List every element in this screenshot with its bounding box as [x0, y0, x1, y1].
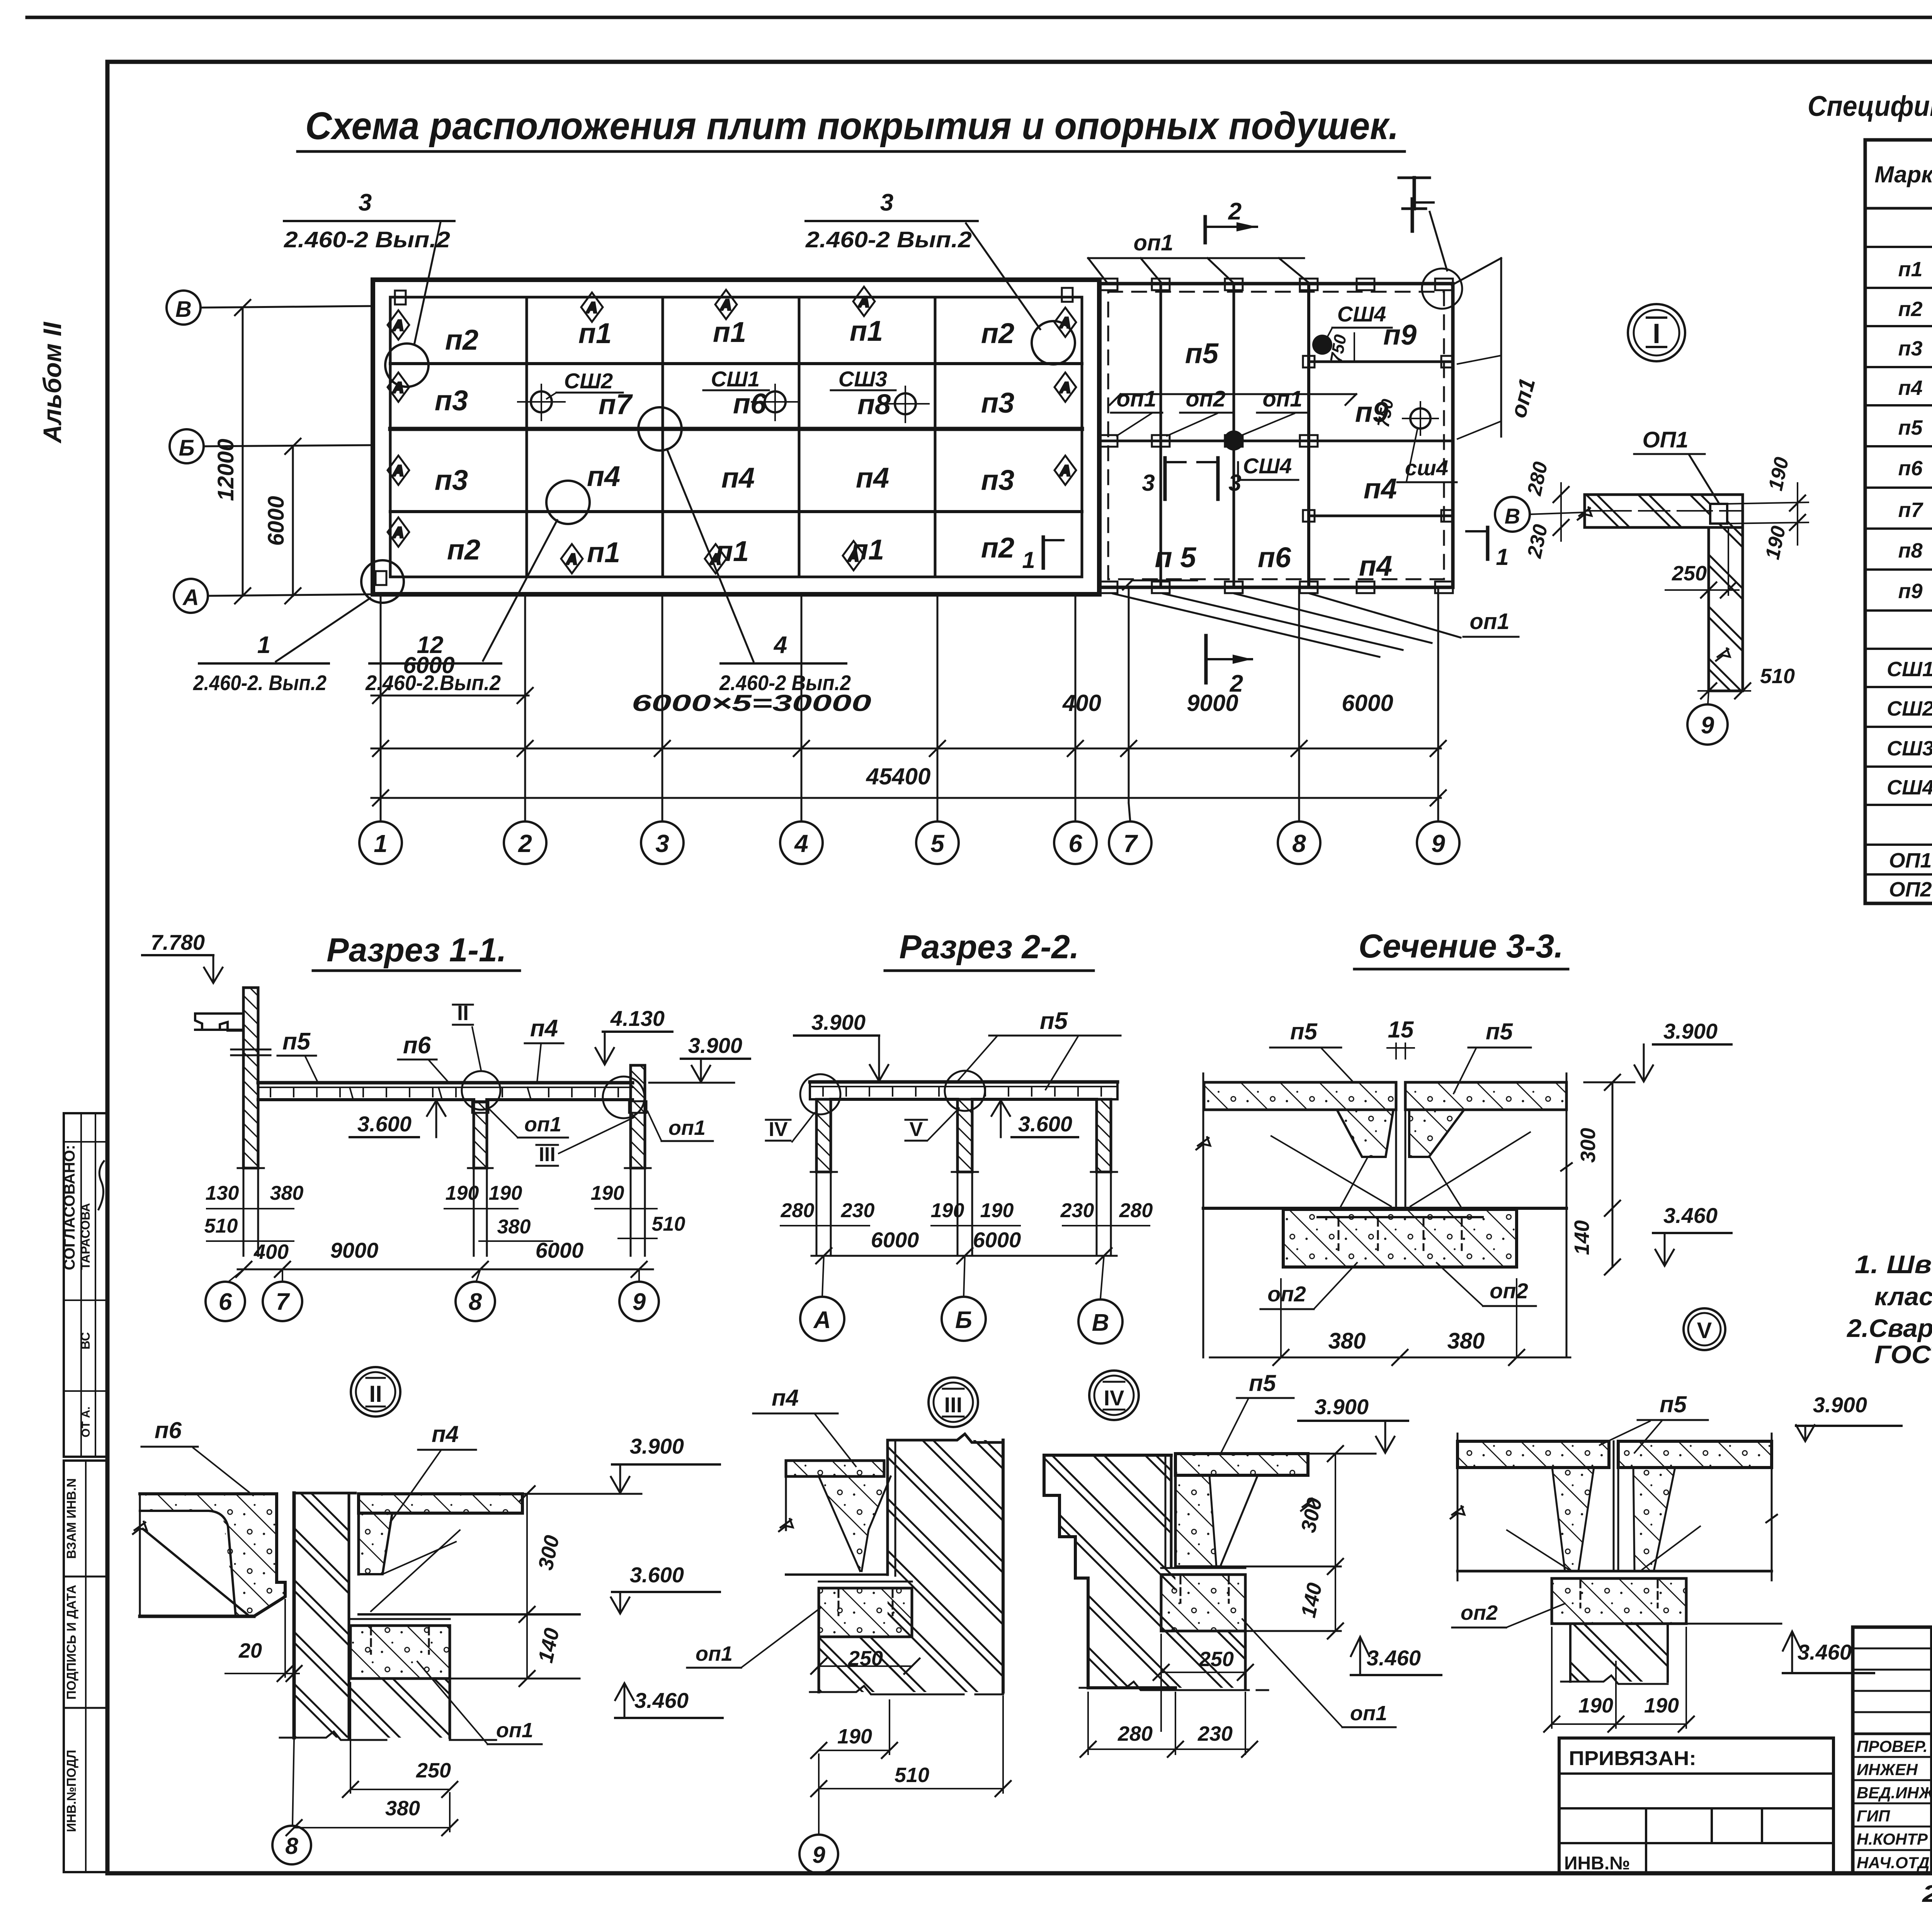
spec row p4 [1898, 376, 1932, 400]
plan: column circles 1-9 [359, 821, 1459, 864]
plan: detail circle C1 [385, 344, 429, 387]
svg-text:п2: п2 [1898, 298, 1922, 321]
title block: signature names [1857, 1737, 1932, 1872]
razrez 1-1 right wall axis 9 [629, 1065, 646, 1168]
plan: node I flag mark [1399, 178, 1447, 270]
svg-text:IV: IV [769, 1118, 787, 1141]
detail III: op1 pad [819, 1582, 912, 1637]
sechenie 3-3 OP2 pad [1283, 1209, 1517, 1267]
svg-text:190: 190 [591, 1182, 624, 1204]
detail II bubble [351, 1367, 400, 1417]
svg-text:п3: п3 [435, 464, 468, 496]
razrez 1-1 detail III label [536, 1117, 634, 1166]
margin text Album II [38, 321, 66, 444]
svg-text:140: 140 [1570, 1220, 1594, 1255]
svg-text:6000×5=30000: 6000×5=30000 [632, 690, 871, 716]
detail II: level 3.460 [615, 1683, 723, 1718]
plan left block: plate row lines [390, 364, 1082, 512]
detail II: break line bottom [280, 1731, 496, 1740]
svg-text:СШ4: СШ4 [1337, 302, 1386, 326]
razrez 1-1 level 7.780 [142, 930, 223, 983]
svg-text:СШ2: СШ2 [564, 369, 613, 393]
svg-text:В: В [175, 297, 192, 322]
detail II: level 3.600 [611, 1563, 720, 1614]
detail IV: p5 label [1221, 1370, 1294, 1453]
svg-text:8: 8 [285, 1833, 298, 1859]
svg-text:А: А [393, 463, 403, 479]
plan: shear key SSh1 [703, 367, 799, 420]
plan left block: plate labels row3 [435, 460, 1014, 496]
plan: label 1 / 2.460-2.Vyp.2 [193, 598, 370, 695]
detail IV: stepped cornice wall [1044, 1455, 1175, 1688]
svg-text:250: 250 [416, 1759, 451, 1782]
razrez 1-1 wall base ticks [238, 1168, 651, 1256]
svg-text:п6: п6 [733, 388, 767, 420]
detail V: p5 label [1600, 1391, 1708, 1453]
svg-text:3: 3 [880, 189, 893, 216]
svg-text:3.900: 3.900 [811, 1010, 866, 1034]
plan right block: room labels [1155, 319, 1417, 582]
privyazan table [1559, 1738, 1833, 1874]
sechenie 3-3 level 3.460 [1653, 1203, 1731, 1266]
plan right block: p5 brackets [1110, 394, 1356, 590]
svg-text:п2: п2 [445, 324, 478, 356]
razrez 2-2 slab [810, 1082, 1117, 1099]
svg-text:п2: п2 [981, 532, 1014, 564]
svg-text:1: 1 [374, 830, 388, 857]
razrez 1-1 level 4.130 [595, 1006, 672, 1065]
svg-text:7: 7 [1123, 830, 1138, 857]
node I detail: corner pad op1 [1710, 504, 1727, 524]
detail IV bubble [1089, 1371, 1139, 1420]
svg-text:оп1: оп1 [1505, 376, 1540, 420]
svg-text:СШ3: СШ3 [1887, 737, 1932, 760]
node I detail: OP1 label [1634, 427, 1720, 505]
svg-text:3.600: 3.600 [357, 1112, 412, 1136]
svg-text:3.460: 3.460 [1663, 1203, 1718, 1228]
detail II: wall [294, 1493, 355, 1738]
detail II: level 3.900 [522, 1434, 720, 1494]
plan right block: shear key SSh4 middle-right [1374, 398, 1457, 482]
svg-text:п5: п5 [1249, 1370, 1277, 1396]
svg-text:п5: п5 [1486, 1019, 1514, 1044]
svg-text:2.Сварку производить электрода: 2.Сварку производить электродами типа Э4… [1846, 1314, 1932, 1342]
svg-text:А: А [566, 551, 577, 568]
svg-text:280: 280 [1119, 1199, 1153, 1222]
svg-text:2.460-2 Вып.2: 2.460-2 Вып.2 [284, 227, 450, 252]
svg-text:п6: п6 [1898, 457, 1923, 480]
svg-text:6000: 6000 [264, 496, 289, 546]
detail II: p4 label [390, 1421, 476, 1522]
svg-text:380: 380 [385, 1797, 420, 1820]
svg-text:п5: п5 [1660, 1391, 1687, 1417]
detail III: grid circle 9 [799, 1754, 838, 1873]
detail II: slab p6 end piece [133, 1494, 285, 1616]
razrez 2-2 base ticks and stubs [811, 1172, 1117, 1256]
svg-text:п5: п5 [1185, 337, 1219, 369]
plan: shear key SSh3 [831, 367, 929, 422]
plan: detail circle C2 [1032, 321, 1075, 364]
svg-text:3.900: 3.900 [688, 1033, 742, 1058]
spec table grid [1865, 140, 1932, 903]
svg-text:А: А [1060, 463, 1070, 479]
svg-text:300: 300 [1577, 1128, 1600, 1163]
svg-text:оп1: оп1 [1262, 386, 1302, 412]
svg-text:15: 15 [1388, 1017, 1414, 1043]
plan: op1 rotated label right side [1452, 258, 1540, 439]
sechenie 3-3 slabs [1203, 1082, 1566, 1208]
svg-text:А: А [1060, 380, 1070, 396]
svg-text:п4: п4 [530, 1015, 558, 1042]
svg-text:1: 1 [257, 632, 270, 658]
svg-text:380: 380 [497, 1216, 531, 1238]
detail V: wall below op2 pad [1561, 1624, 1668, 1684]
svg-text:V: V [910, 1118, 923, 1141]
svg-text:750: 750 [1327, 333, 1350, 364]
svg-text:п6: п6 [1258, 541, 1291, 573]
plan: section cut 1 top mark [1412, 199, 1434, 231]
svg-text:п4: п4 [856, 462, 889, 494]
svg-text:3.460: 3.460 [1798, 1640, 1852, 1664]
svg-text:3.600: 3.600 [1018, 1112, 1072, 1136]
razrez 2-2 main dim [811, 1228, 1117, 1264]
svg-text:190: 190 [1578, 1694, 1613, 1717]
svg-text:190: 190 [931, 1199, 964, 1222]
plan: montage diamond marks [388, 287, 1076, 573]
svg-text:п4: п4 [1359, 550, 1392, 582]
svg-text:п8: п8 [1898, 539, 1922, 562]
detail V: dims 190 190 [1544, 1628, 1694, 1732]
title block: signature grid [1853, 1627, 1932, 1873]
svg-text:7.780: 7.780 [151, 930, 205, 954]
svg-text:СШ4: СШ4 [1243, 454, 1292, 478]
detail IV: op1 pad [1161, 1568, 1245, 1631]
svg-text:А: А [813, 1307, 831, 1333]
svg-text:п1: п1 [850, 315, 883, 347]
detail II: slab p4 [359, 1494, 580, 1614]
svg-text:п 5: п 5 [1155, 541, 1197, 573]
svg-text:20: 20 [238, 1639, 262, 1662]
svg-text:3.900: 3.900 [630, 1434, 684, 1458]
plan left block: plate joint verticals [527, 297, 935, 577]
svg-text:4.130: 4.130 [610, 1006, 665, 1031]
spec row p6 [1898, 457, 1932, 480]
node I detail: right dims 190 190 [1727, 455, 1808, 561]
svg-text:п1: п1 [713, 316, 746, 348]
razrez 2-2 V label [905, 1108, 959, 1141]
spec row p1 [1898, 258, 1932, 281]
plan: detail circle C4 [638, 407, 682, 451]
plan right block: internal walls [1099, 284, 1453, 587]
svg-text:190: 190 [837, 1725, 872, 1748]
plan: op1 leader fan below block [1113, 594, 1519, 657]
razrez 1-1 left parapet wall [195, 988, 270, 1168]
svg-text:СШ4: СШ4 [1887, 776, 1932, 799]
razrez 1-1 main dim line [236, 1238, 653, 1277]
plan: dim line 6000 (1-2) [371, 652, 533, 703]
svg-text:НАЧ.ОТД: НАЧ.ОТД [1857, 1854, 1930, 1872]
plan: label 4 / 2.460-2 Vyp.2 [667, 449, 851, 695]
detail V: op2 label [1452, 1601, 1565, 1628]
svg-text:9000: 9000 [330, 1238, 379, 1262]
detail V: slabs with joint [1451, 1434, 1777, 1580]
svg-text:оп1: оп1 [1350, 1702, 1387, 1725]
svg-text:оп1: оп1 [1469, 609, 1509, 634]
plan: label 3 / 2.460-2 Vyp.2 (second) [805, 189, 1040, 329]
plan: detail circle C5 [361, 560, 404, 603]
detail III: dim 250 [811, 1647, 920, 1674]
svg-text:3.600: 3.600 [630, 1563, 684, 1587]
plan: corner anchor squares [376, 288, 1073, 585]
sechenie 3-3 p5 labels and 15 [1270, 1017, 1531, 1094]
razrez 2-2 wall A [816, 1099, 831, 1172]
svg-text:510: 510 [204, 1215, 238, 1237]
svg-text:6000: 6000 [536, 1238, 584, 1262]
svg-text:СШ1: СШ1 [711, 367, 760, 391]
detail V: level 3.900 [1796, 1393, 1901, 1441]
svg-text:3: 3 [1228, 470, 1241, 496]
plan: grid row circle B [170, 429, 204, 463]
svg-text:230: 230 [841, 1199, 875, 1222]
spec row p3 [1898, 337, 1932, 360]
svg-text:3: 3 [359, 189, 372, 216]
svg-text:3: 3 [655, 830, 669, 857]
svg-text:4: 4 [773, 632, 787, 658]
detail II: lower wall below pad [349, 1619, 450, 1738]
spec row p2 [1898, 298, 1932, 321]
svg-text:6000: 6000 [1342, 690, 1393, 716]
svg-text:230: 230 [1523, 522, 1552, 560]
svg-text:Б: Б [955, 1307, 972, 1333]
razrez 1-1 grid circles 6 7 8 9 [206, 1269, 659, 1321]
razrez 1-1 level 3.600 [350, 1100, 446, 1137]
svg-text:ОП1: ОП1 [1642, 427, 1688, 452]
detail II: dim 380 [286, 1793, 457, 1835]
svg-text:300: 300 [534, 1533, 564, 1572]
svg-text:190: 190 [489, 1182, 522, 1204]
razrez 2-2 small dims [781, 1199, 1153, 1226]
svg-text:380: 380 [1447, 1328, 1485, 1354]
svg-text:190: 190 [1761, 524, 1790, 561]
spec row op1 [1889, 847, 1932, 872]
svg-text:9: 9 [1431, 830, 1445, 857]
svg-text:оп2: оп2 [1461, 1601, 1498, 1624]
svg-text:280: 280 [1523, 460, 1552, 498]
sheet title [298, 104, 1405, 151]
svg-text:400: 400 [1062, 690, 1101, 716]
detail III: slab p4 [779, 1461, 891, 1575]
svg-text:6000: 6000 [403, 652, 454, 678]
svg-text:Марка: Марка [1874, 162, 1932, 187]
plan: section cut 2 top mark [1205, 198, 1257, 243]
plan left block: plate labels row1 [445, 315, 1014, 356]
razrez 2-2 title [885, 929, 1094, 971]
svg-text:9: 9 [633, 1289, 646, 1315]
svg-text:п1: п1 [587, 536, 620, 568]
svg-text:Б: Б [179, 435, 194, 461]
svg-text:п4: п4 [772, 1385, 799, 1411]
detail III: wall below pad [810, 1637, 1003, 1694]
razrez 1-1 detail circles [462, 1071, 645, 1118]
plan right block: section cut 3 marks [1142, 458, 1241, 499]
svg-text:3.900: 3.900 [1663, 1019, 1718, 1043]
plan: label 12 / 2.460-2.Vyp.2 [365, 520, 557, 695]
svg-text:III: III [944, 1393, 963, 1417]
svg-text:СШ2: СШ2 [1887, 697, 1932, 720]
svg-text:п3: п3 [981, 464, 1014, 496]
svg-text:ВЗАМ ИНВ.N: ВЗАМ ИНВ.N [64, 1478, 78, 1559]
svg-text:2: 2 [518, 830, 532, 857]
detail III: op1 label [687, 1607, 821, 1668]
plan: left vertical dim 6000 [264, 439, 301, 604]
sechenie 3-3 detail V bubble [1684, 1308, 1725, 1350]
svg-text:5: 5 [930, 830, 945, 857]
sechenie 3-3 level 3.900 [1584, 1019, 1731, 1082]
plan left block: outer walls [373, 280, 1099, 594]
svg-text:А: А [858, 294, 869, 310]
svg-text:2: 2 [1228, 198, 1242, 225]
svg-text:п2: п2 [981, 317, 1014, 349]
razrez 2-2 wall B [957, 1099, 972, 1172]
spec table header [1874, 162, 1932, 187]
svg-text:Разрез 2-2.: Разрез 2-2. [899, 929, 1079, 966]
svg-text:п6: п6 [155, 1417, 182, 1443]
node I detail: left dims 280 230 [1523, 460, 1569, 560]
razrez 1-1 level 3.900 [649, 1033, 750, 1083]
svg-text:п3: п3 [435, 384, 468, 417]
svg-text:45400: 45400 [866, 764, 931, 789]
svg-text:п4: п4 [587, 460, 620, 492]
node I detail: dim 510 [1698, 665, 1795, 699]
detail IV: dim 250 [1153, 1634, 1253, 1731]
spec row p9 [1898, 580, 1932, 603]
svg-text:оп2: оп2 [1185, 386, 1225, 412]
svg-text:А: А [393, 525, 403, 541]
plan right block: shear key SSh4 центр [1224, 430, 1298, 480]
node I detail: vertical wall band [1709, 527, 1743, 691]
svg-text:Сечение 3-3.: Сечение 3-3. [1359, 928, 1563, 965]
svg-text:оп2: оп2 [1490, 1279, 1528, 1303]
detail IV: level 3.460 [1351, 1637, 1441, 1675]
detail II: dim 140 [450, 1614, 580, 1686]
svg-text:6: 6 [219, 1289, 232, 1315]
svg-text:Спецификация элементов к схеме: Спецификация элементов к схеме расположе… [1808, 90, 1932, 122]
svg-text:ОП1: ОП1 [1889, 849, 1932, 872]
sechenie 3-3 title [1354, 928, 1568, 969]
svg-text:п9: п9 [1383, 319, 1417, 351]
sechenie 3-3 weld cross lines [1271, 1132, 1530, 1206]
svg-text:СОГЛАСОВАНО:: СОГЛАСОВАНО: [61, 1145, 78, 1270]
svg-text:400: 400 [253, 1240, 289, 1264]
svg-text:230: 230 [1060, 1199, 1094, 1222]
plan right block: outer walls [1099, 284, 1453, 587]
svg-text:СШ1: СШ1 [1887, 658, 1932, 681]
svg-text:ИНВ.№ПОДЛ: ИНВ.№ПОДЛ [64, 1750, 78, 1832]
svg-text:ОП2: ОП2 [1889, 878, 1932, 901]
razrez 1-1 title [313, 932, 520, 971]
svg-text:п6: п6 [403, 1032, 431, 1059]
svg-text:3.900: 3.900 [1813, 1393, 1867, 1417]
svg-text:п4: п4 [432, 1421, 459, 1447]
svg-text:А: А [586, 300, 597, 316]
svg-text:В: В [1505, 504, 1520, 528]
detail II: p6 label [141, 1417, 253, 1495]
svg-text:оп1: оп1 [496, 1719, 533, 1742]
plan: detail circle C3 [546, 481, 590, 524]
svg-text:п4: п4 [1898, 376, 1922, 400]
svg-text:А: А [848, 548, 859, 565]
spec row p8 [1898, 539, 1932, 562]
svg-text:1: 1 [1022, 547, 1035, 573]
svg-text:6000: 6000 [973, 1228, 1021, 1252]
svg-text:9: 9 [812, 1842, 825, 1868]
svg-text:Схема расположения плит покрыт: Схема расположения плит покрытия и опорн… [305, 104, 1399, 148]
svg-text:ТАРАСОВА: ТАРАСОВА [78, 1203, 92, 1270]
razrez 2-2 level 3.900 [794, 1010, 888, 1081]
svg-text:ПРИВЯЗАН:: ПРИВЯЗАН: [1569, 1747, 1696, 1770]
svg-text:190: 190 [1764, 455, 1793, 493]
svg-text:8: 8 [1292, 830, 1306, 857]
svg-text:9000: 9000 [1187, 690, 1238, 716]
svg-text:оп1: оп1 [1133, 230, 1173, 255]
plan: grid row circle V [167, 291, 201, 325]
svg-text:23141-02 36: 23141-02 36 [1922, 1881, 1932, 1907]
plan right block: op1 op2 op1 labels over middle pads [1111, 386, 1308, 436]
plan: corner detail circle [1422, 269, 1462, 309]
detail II: op1 label lower [417, 1662, 542, 1744]
svg-text:2.460-2. Вып.2: 2.460-2. Вып.2 [193, 671, 327, 695]
svg-text:2.460-2 Вып.2: 2.460-2 Вып.2 [805, 227, 972, 252]
plan: dim line 6000x5 [371, 690, 1446, 756]
svg-text:класса В15 на мелком заполните: класса В15 на мелком заполнителе. [1874, 1282, 1932, 1311]
detail IV: dims 300 140 [1221, 1446, 1343, 1639]
plan: label 3 / 2.460-2 Vyp.2 (first) [284, 189, 454, 345]
svg-text:380: 380 [270, 1182, 304, 1204]
detail III: wall [888, 1434, 1003, 1692]
razrez 2-2 wall V [1097, 1099, 1111, 1172]
svg-text:п5: п5 [1040, 1008, 1068, 1034]
svg-text:1: 1 [1496, 544, 1509, 570]
svg-text:190: 190 [446, 1182, 479, 1204]
spec row op2 [1889, 878, 1932, 901]
sechenie 3-3 right dims 300 140 [1570, 1075, 1620, 1275]
plan: bottom axis stubs [381, 587, 1438, 821]
razrez 2-2 detail circles [800, 1071, 985, 1114]
svg-text:В: В [1092, 1310, 1109, 1336]
svg-text:п5: п5 [1898, 416, 1923, 439]
plan: op1 leader bracket above block [1088, 230, 1308, 282]
svg-text:ИНВ.№: ИНВ.№ [1564, 1853, 1630, 1874]
svg-text:190: 190 [1644, 1694, 1679, 1717]
spec row sh1 [1887, 658, 1932, 681]
svg-text:п9: п9 [1898, 580, 1922, 603]
detail III: dim 510 [811, 1696, 1011, 1796]
plan right block: bearing pads op1 [1100, 279, 1453, 593]
svg-text:4: 4 [794, 830, 808, 857]
svg-text:Разрез 1-1.: Разрез 1-1. [327, 932, 506, 969]
svg-text:ГИП: ГИП [1857, 1807, 1890, 1825]
plan: grid row circle A [174, 579, 208, 613]
svg-text:п7: п7 [1898, 498, 1923, 522]
svg-text:510: 510 [1760, 665, 1795, 688]
svg-text:ПОДПИСЬ И ДАТА: ПОДПИСЬ И ДАТА [64, 1585, 78, 1699]
detail II: dim 250 [343, 1683, 457, 1797]
detail IV: wall below pad [1080, 1631, 1268, 1690]
spec row p7 [1898, 498, 1932, 522]
svg-text:380: 380 [1328, 1328, 1366, 1354]
razrez 1-1 middle wall axis 8 [472, 1101, 488, 1168]
svg-text:I: I [1653, 318, 1660, 349]
